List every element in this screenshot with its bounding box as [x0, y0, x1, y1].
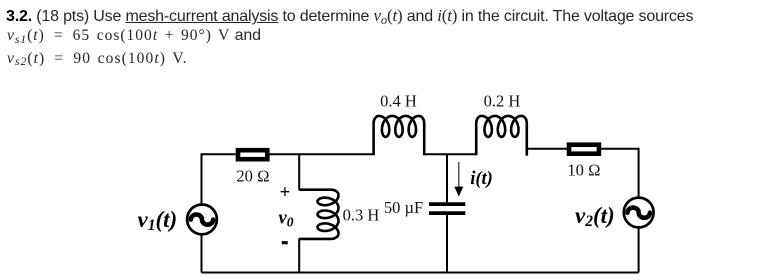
svg-text:i(t): i(t): [470, 169, 493, 189]
label minus polarity: [282, 241, 288, 244]
source V2 circle: [624, 198, 654, 228]
wire 0.3H bottom to bottom rail: [298, 238, 300, 272]
wire resistor20 to 0.4H riser: [270, 153, 374, 155]
inductor L3 0.3 H: [299, 190, 338, 239]
svg-text:v2(t): v2(t): [575, 203, 615, 230]
svg-text:+: +: [280, 183, 291, 203]
inductor L2 0.2 H: [476, 116, 527, 156]
source V2 sine symbol: [628, 208, 650, 218]
svg-text:50 µF: 50 µF: [384, 198, 423, 217]
svg-text:v1(t): v1(t): [138, 207, 178, 234]
current arrow i(t) shaft: [458, 162, 460, 189]
capacitor C1 50uF bottom plate: [429, 211, 465, 215]
wire resistor10 to right corner down to v2: [601, 149, 638, 198]
svg-text:0.2 H: 0.2 H: [484, 91, 521, 110]
source V1 circle: [187, 205, 217, 235]
wire 0.4H to 0.2H: [424, 153, 476, 155]
wire v2 bottom to rail: [638, 228, 640, 273]
wire 0.2H exit to resistor10: [527, 148, 567, 150]
problem statement line 2: [7, 26, 261, 46]
wire capacitor bottom lead: [446, 215, 448, 273]
svg-text:10 Ω: 10 Ω: [567, 160, 600, 179]
resistor R2 10 ohm: [569, 145, 599, 154]
svg-text:v0: v0: [279, 208, 294, 229]
wire capacitor top lead: [446, 154, 448, 202]
problem statement line 3: [7, 49, 188, 69]
wire node A down to 0.3H top stub: [298, 154, 300, 190]
source V1 sine symbol: [191, 215, 213, 225]
wire v1 bottom to rail: [201, 234, 203, 272]
svg-text:0.3 H: 0.3 H: [343, 206, 380, 225]
resistor R1 20 ohm: [238, 150, 267, 159]
svg-text:0.4 H: 0.4 H: [380, 91, 417, 110]
wire left vertical and top-left corner: [202, 154, 236, 204]
capacitor C1 50uF top plate: [429, 202, 465, 206]
current arrow i(t) head: [454, 187, 463, 197]
problem statement line 1: [6, 6, 693, 26]
svg-text:20 Ω: 20 Ω: [236, 167, 269, 186]
inductor L1 0.4 H: [374, 116, 425, 155]
bottom rail wire: [202, 272, 639, 274]
